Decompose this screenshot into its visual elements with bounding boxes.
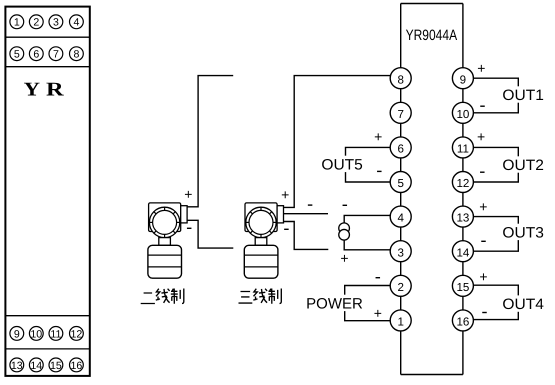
svg-text:2: 2	[397, 281, 403, 294]
svg-text:YR9044A: YR9044A	[406, 27, 458, 44]
svg-text:5: 5	[14, 49, 20, 61]
svg-text:12: 12	[71, 328, 83, 340]
svg-text:+: +	[374, 305, 382, 321]
svg-text:13: 13	[11, 360, 23, 372]
svg-text:11: 11	[457, 143, 469, 156]
svg-text:R: R	[46, 80, 65, 101]
svg-text:+: +	[477, 60, 485, 76]
svg-text:2: 2	[33, 17, 39, 29]
svg-text:4: 4	[73, 17, 79, 29]
svg-text:OUT5: OUT5	[321, 156, 363, 173]
svg-text:15: 15	[456, 281, 469, 294]
svg-text:12: 12	[456, 177, 469, 190]
svg-text:OUT4: OUT4	[502, 296, 544, 313]
svg-text:4: 4	[397, 212, 404, 225]
svg-text:16: 16	[456, 316, 469, 329]
svg-text:7: 7	[53, 49, 59, 61]
svg-text:14: 14	[456, 246, 469, 259]
svg-text:9: 9	[14, 328, 20, 340]
svg-text:3: 3	[53, 17, 59, 29]
svg-text:6: 6	[397, 143, 403, 156]
svg-text:OUT3: OUT3	[502, 224, 544, 241]
svg-text:1: 1	[14, 17, 20, 29]
svg-text:6: 6	[33, 49, 39, 61]
svg-text:OUT1: OUT1	[502, 87, 544, 104]
svg-text:+: +	[479, 199, 487, 215]
svg-text:+: +	[477, 129, 485, 145]
svg-text:14: 14	[30, 360, 42, 372]
svg-text:16: 16	[71, 360, 83, 372]
svg-text:3: 3	[397, 246, 403, 259]
svg-text:+: +	[281, 186, 289, 202]
svg-text:13: 13	[456, 212, 469, 225]
svg-text:10: 10	[456, 108, 469, 121]
svg-text:POWER: POWER	[306, 295, 363, 312]
svg-text:10: 10	[30, 328, 42, 340]
svg-text:Y: Y	[24, 80, 40, 101]
svg-text:7: 7	[397, 108, 403, 121]
svg-text:1: 1	[397, 316, 403, 329]
svg-text:8: 8	[397, 73, 403, 86]
svg-text:9: 9	[460, 73, 466, 86]
svg-text:+: +	[374, 129, 382, 145]
svg-text:8: 8	[73, 49, 79, 61]
svg-text:5: 5	[397, 177, 403, 190]
svg-text:+: +	[184, 186, 192, 202]
svg-text:11: 11	[50, 328, 61, 340]
svg-text:+: +	[479, 268, 487, 284]
svg-text:15: 15	[50, 360, 62, 372]
svg-text:+: +	[340, 250, 348, 266]
svg-text:OUT2: OUT2	[502, 157, 544, 174]
